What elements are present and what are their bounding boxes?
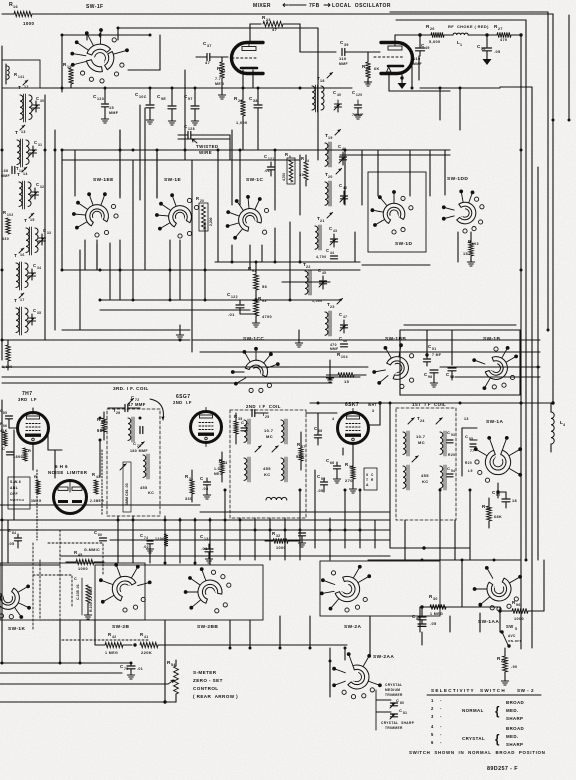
- svg-text:5,600: 5,600: [429, 40, 441, 44]
- svg-text:-90: -90: [511, 665, 517, 669]
- svg-text:SW-1D: SW-1D: [395, 241, 412, 247]
- wire row2 buses: [62, 28, 450, 330]
- svg-text:SW-1K: SW-1K: [8, 626, 25, 632]
- resistor R103: [463, 235, 479, 266]
- svg-text:53: 53: [451, 433, 455, 437]
- rotary switch SW-1EE: [93, 177, 114, 183]
- svg-text:6K: 6K: [374, 67, 380, 71]
- rotary switch SW-1C: [246, 177, 263, 183]
- wire SW-1B box: [400, 325, 520, 395]
- wire right-edge verticals: [252, 12, 569, 649]
- svg-text:SELECTIVITY SWITCH: SELECTIVITY SWITCH: [431, 688, 506, 693]
- svg-text:C: C: [447, 430, 450, 435]
- wire twisted pair second: [178, 135, 230, 160]
- svg-text:C: C: [399, 708, 402, 713]
- svg-text:110: 110: [413, 56, 421, 61]
- svg-text:SW-2BB: SW-2BB: [197, 624, 218, 630]
- wire osc pins: [389, 33, 450, 91]
- svg-text:4700: 4700: [262, 315, 272, 319]
- wire top bus: [2, 4, 252, 14]
- capacitor C128: [178, 124, 202, 139]
- capacitor C135 R101: [74, 577, 93, 619]
- svg-text:24: 24: [420, 419, 425, 423]
- resistor R31: [185, 470, 194, 502]
- svg-text:32: 32: [276, 534, 281, 538]
- svg-text:R: R: [196, 196, 199, 201]
- svg-text:R: R: [14, 72, 17, 77]
- resistor R34: [214, 452, 228, 482]
- svg-text:3RD I.F: 3RD I.F: [18, 397, 37, 402]
- svg-text:SW-1EE: SW-1EE: [93, 177, 114, 183]
- capacitor C57: [492, 483, 517, 508]
- svg-text:27: 27: [498, 27, 503, 31]
- svg-text:SW-1AA: SW-1AA: [478, 619, 499, 625]
- capacitor C74 R-1200: [140, 533, 168, 553]
- svg-text:31: 31: [38, 143, 42, 147]
- svg-text:4: 4: [563, 423, 565, 427]
- svg-text:C: C: [8, 528, 11, 533]
- svg-text:141: 141: [18, 75, 25, 79]
- svg-text:43: 43: [333, 229, 337, 233]
- svg-text:80: 80: [400, 701, 404, 705]
- svg-text:AVC: AVC: [508, 634, 516, 638]
- resistor R54 pot: [167, 660, 178, 702]
- resistor R19: [63, 62, 74, 88]
- svg-text:C: C: [329, 226, 332, 231]
- wire mesh row2-to-IF: [62, 108, 471, 340]
- svg-text:C: C: [264, 154, 267, 159]
- capacitor C75: [120, 663, 143, 679]
- transformer T18: [312, 72, 333, 112]
- svg-text:C: C: [352, 90, 355, 95]
- svg-text:C: C: [326, 248, 329, 253]
- capacitor T26 cap: [108, 398, 140, 415]
- resistor R24: [299, 155, 309, 186]
- label MIXER: [253, 3, 306, 9]
- resistor R26: [420, 24, 444, 44]
- svg-text:MED.: MED.: [506, 708, 519, 713]
- svg-text:R20: R20: [448, 453, 455, 457]
- transformer T: [14, 248, 36, 290]
- switch SW5: [500, 624, 522, 648]
- svg-text:39: 39: [344, 43, 349, 47]
- svg-text:2: 2: [431, 706, 434, 711]
- svg-text:C: C: [396, 698, 399, 703]
- svg-text:330: 330: [185, 497, 193, 501]
- svg-text:SW-2AA: SW-2AA: [373, 654, 394, 660]
- svg-text:43: 43: [96, 475, 100, 479]
- svg-text:C: C: [133, 441, 136, 446]
- wire bottom row verticals: [60, 607, 480, 697]
- svg-text:23: 23: [330, 305, 335, 309]
- rotary switch SW-2A: [344, 624, 361, 630]
- svg-text:WHT: WHT: [368, 403, 377, 407]
- svg-text:7FB: 7FB: [309, 3, 320, 9]
- svg-text:133: 133: [204, 537, 211, 541]
- svg-text:20: 20: [328, 175, 333, 179]
- svg-text:35: 35: [37, 311, 41, 315]
- resistor R43: [90, 472, 104, 503]
- svg-text:47: 47: [272, 27, 278, 32]
- svg-text:.02: .02: [143, 545, 149, 549]
- svg-text:MMF: MMF: [109, 111, 119, 115]
- capacitor 130MMF: [1, 166, 23, 178]
- svg-text:2ND I F COIL: 2ND I F COIL: [246, 404, 281, 409]
- label 7FB LOCAL OSCILLATOR: [309, 3, 391, 9]
- svg-text:180 MMF: 180 MMF: [130, 449, 148, 453]
- svg-text:1,500: 1,500: [312, 299, 323, 303]
- svg-text:52: 52: [321, 477, 326, 481]
- capacitor C66: [326, 458, 341, 483]
- svg-text:45: 45: [78, 553, 83, 557]
- svg-text:6 H 6: 6 H 6: [55, 464, 68, 469]
- capacitor C50: [477, 33, 500, 65]
- capacitor C9E: [157, 88, 176, 125]
- resistor R9 boxed: [282, 152, 295, 184]
- capacitor C43: [316, 226, 338, 259]
- svg-text:3RD. I F. COIL: 3RD. I F. COIL: [113, 386, 149, 391]
- transformer T21: [315, 212, 333, 250]
- svg-text:CRYSTAL SHARP: CRYSTAL SHARP: [381, 721, 415, 725]
- svg-text:C-135 .01: C-135 .01: [76, 584, 80, 600]
- capacitor C36mid: [314, 413, 323, 445]
- svg-text:6SK7: 6SK7: [345, 402, 359, 408]
- svg-text:49: 49: [425, 46, 430, 50]
- table selectivity switch: [409, 688, 545, 755]
- svg-text:85: 85: [3, 411, 7, 415]
- svg-text:96: 96: [3, 424, 7, 428]
- svg-text:C: C: [465, 434, 468, 439]
- svg-text:16: 16: [20, 253, 25, 257]
- svg-text:.05: .05: [317, 489, 323, 493]
- svg-text:104: 104: [341, 355, 348, 359]
- capacitor C47b: [241, 420, 249, 431]
- resistor R29: [497, 648, 517, 685]
- wire 6SK7 pins: [306, 401, 382, 460]
- dotted shield 3rd IF: [37, 450, 102, 540]
- capacitor C10C: [135, 88, 154, 124]
- svg-text:33: 33: [47, 231, 51, 235]
- svg-text:455: 455: [140, 486, 148, 490]
- rotary switch SW-1BB: [385, 336, 406, 342]
- svg-text:455: 455: [263, 466, 271, 471]
- svg-text:15: 15: [344, 379, 350, 384]
- svg-text:SW: SW: [506, 624, 514, 629]
- capacitor C59: [412, 605, 436, 626]
- resistor R23: [262, 15, 336, 52]
- wire mixer plate: [250, 24, 261, 42]
- svg-text:SW-2A: SW-2A: [344, 624, 361, 630]
- capacitor C76: [298, 533, 305, 547]
- coils 2nd IF: [244, 410, 287, 501]
- svg-text:30: 30: [433, 597, 438, 601]
- svg-text:1000: 1000: [78, 567, 88, 571]
- svg-text:ON-OFF: ON-OFF: [508, 639, 522, 643]
- svg-text:16: 16: [13, 5, 18, 9]
- svg-text:7 MF: 7 MF: [432, 353, 441, 357]
- svg-text:WIRE: WIRE: [199, 150, 212, 155]
- svg-text:14: 14: [23, 172, 28, 176]
- svg-text:R20: R20: [465, 461, 472, 465]
- svg-text:44: 44: [330, 251, 334, 255]
- svg-text:220K: 220K: [141, 650, 152, 655]
- svg-text:5: 5: [515, 627, 517, 631]
- resistor R16: [9, 2, 35, 26]
- tube V osc 7F8b: [374, 43, 412, 74]
- resistor R104: [326, 352, 366, 384]
- transformer T: [24, 213, 46, 255]
- svg-text:4,700: 4,700: [316, 255, 327, 259]
- svg-text:.01: .01: [264, 169, 270, 173]
- resistor R-left-bottom: [2, 340, 13, 370]
- svg-text:5: 5: [431, 732, 434, 737]
- svg-text:1: 1: [431, 698, 434, 703]
- svg-text:CRYSTAL: CRYSTAL: [385, 683, 403, 687]
- rotary switch SW-2B: [112, 624, 129, 630]
- svg-text:R: R: [3, 210, 6, 215]
- svg-text:T: T: [24, 218, 27, 224]
- svg-text:L9: L9: [468, 469, 473, 473]
- svg-text:96: 96: [516, 603, 521, 607]
- wire SW-1A conns: [462, 417, 477, 476]
- svg-text:37: 37: [207, 44, 212, 48]
- crystal box: [364, 468, 377, 490]
- resistor R99: [97, 412, 106, 440]
- svg-text:KC: KC: [148, 491, 154, 495]
- svg-text:SW-1F: SW-1F: [86, 4, 103, 10]
- svg-text:.05: .05: [494, 50, 500, 54]
- svg-text:34: 34: [37, 266, 41, 270]
- svg-text:68K: 68K: [494, 515, 502, 519]
- capacitor C97: [184, 88, 199, 125]
- svg-text:20: 20: [200, 199, 204, 203]
- rotary switch SW-2AA: [373, 654, 394, 660]
- svg-text:C: C: [34, 140, 37, 145]
- svg-text:38: 38: [253, 99, 258, 103]
- resistor R45: [66, 550, 104, 571]
- inductor L1 RF choke: [444, 24, 497, 47]
- svg-text:1,000: 1,000: [236, 121, 248, 125]
- rotary switch SW-1D: [368, 172, 426, 252]
- svg-text:41: 41: [144, 635, 149, 639]
- svg-text:1MM C81 .03: 1MM C81 .03: [125, 483, 129, 505]
- svg-text:12: 12: [24, 85, 29, 89]
- svg-text:MED.: MED.: [506, 734, 519, 739]
- svg-text:C: C: [241, 420, 244, 425]
- capacitor C84: [8, 528, 22, 548]
- svg-text:18: 18: [512, 499, 517, 503]
- resistor R32: [265, 531, 300, 550]
- transformer T20: [325, 168, 342, 206]
- capacitor C133: [200, 534, 213, 563]
- resistor R20 boxed: [196, 196, 213, 231]
- svg-text:C: C: [371, 473, 374, 477]
- wire mid-bottom mesh: [0, 403, 470, 565]
- capacitor C123: [93, 88, 119, 123]
- svg-text:MEG: MEG: [215, 82, 224, 86]
- svg-text:MC: MC: [418, 440, 425, 445]
- svg-text:SHARP: SHARP: [506, 742, 523, 747]
- capacitor C120: [352, 90, 364, 119]
- svg-text:-: -: [440, 706, 442, 711]
- svg-text:C: C: [339, 183, 342, 188]
- transformer T: [14, 293, 36, 335]
- svg-text:SW-1C: SW-1C: [246, 177, 263, 183]
- svg-text:89D257 - F: 89D257 - F: [487, 766, 518, 772]
- svg-text:66: 66: [330, 461, 335, 465]
- svg-text:T: T: [14, 298, 17, 304]
- switch SW6 ANL box: [8, 477, 30, 509]
- svg-text:{: {: [495, 734, 500, 746]
- wire row2 horizontals: [62, 155, 540, 352]
- svg-text:-: -: [440, 698, 442, 703]
- svg-text:47 MMF: 47 MMF: [128, 402, 146, 407]
- capacitor C122: [227, 292, 258, 317]
- resistor R27: [494, 24, 523, 42]
- svg-text:3: 3: [431, 714, 434, 719]
- svg-text:SW-1B: SW-1B: [483, 336, 500, 342]
- transformer T23: [312, 298, 348, 351]
- resistor R25: [362, 52, 380, 86]
- svg-text:C: C: [338, 144, 341, 149]
- svg-text:T: T: [15, 130, 18, 136]
- svg-text:2,200: 2,200: [209, 217, 213, 226]
- resistor R-3MEG: [31, 474, 42, 503]
- svg-text:9E: 9E: [161, 97, 166, 101]
- svg-text:ZERO - SET: ZERO - SET: [193, 678, 223, 683]
- wire row3 buses: [192, 262, 360, 379]
- rotary switch SW-2BB: [197, 624, 218, 630]
- rotary switch SW-1CC: [243, 336, 264, 342]
- svg-text:{: {: [495, 706, 500, 718]
- rotary switch SW-1B: [483, 336, 500, 342]
- svg-text:R: R: [92, 472, 95, 477]
- wire left edge verticals: [2, 400, 14, 663]
- svg-text:15: 15: [463, 252, 468, 256]
- svg-text:S.W.6: S.W.6: [10, 480, 21, 484]
- wire left verticals: [2, 95, 55, 360]
- svg-text:C: C: [333, 90, 336, 95]
- svg-text:96: 96: [428, 375, 433, 379]
- svg-text:1000: 1000: [276, 546, 286, 550]
- svg-text:1000: 1000: [514, 617, 524, 621]
- svg-text:1.0: 1.0: [214, 467, 220, 471]
- svg-text:22: 22: [306, 265, 311, 269]
- svg-text:123: 123: [97, 97, 104, 101]
- svg-text:13: 13: [21, 130, 26, 134]
- capacitor C80g: [84, 530, 107, 552]
- svg-text:1 MEG: 1 MEG: [105, 651, 118, 655]
- svg-text:455: 455: [421, 473, 429, 478]
- svg-text:56K: 56K: [296, 454, 305, 459]
- svg-text:47: 47: [245, 423, 249, 427]
- svg-text:MMF: MMF: [330, 347, 338, 351]
- resistor R35: [234, 413, 243, 444]
- svg-text:15: 15: [109, 106, 114, 110]
- svg-text:SWITCH SHOWN IN NORMAL BRO: SWITCH SHOWN IN NORMAL BROAD POSITION: [409, 750, 545, 755]
- svg-text:MEG: MEG: [214, 472, 223, 476]
- svg-text:47: 47: [205, 60, 211, 65]
- svg-text:-: -: [440, 724, 442, 729]
- resistor R22: [234, 88, 248, 150]
- svg-text:26: 26: [116, 411, 121, 415]
- svg-text:SW-1E: SW-1E: [164, 177, 181, 183]
- svg-text:SHARP: SHARP: [506, 716, 523, 721]
- svg-text:SW-2B: SW-2B: [112, 624, 129, 630]
- svg-text:MMF: MMF: [413, 62, 422, 66]
- svg-text:1000: 1000: [23, 21, 35, 26]
- capacitor C49: [413, 33, 430, 66]
- tube V4 6SG7: [191, 408, 222, 447]
- svg-text:25: 25: [265, 415, 270, 419]
- tube V5 6SK7: [338, 409, 369, 448]
- svg-text:81: 81: [403, 711, 407, 715]
- label twisted wire: [192, 139, 219, 155]
- svg-text:C: C: [36, 96, 39, 101]
- svg-text:ANL: ANL: [10, 486, 18, 490]
- svg-text:MC: MC: [266, 434, 273, 439]
- svg-text:54: 54: [451, 469, 455, 473]
- tube V mixer 7F8a: [232, 43, 263, 74]
- svg-text:C: C: [36, 182, 39, 187]
- wire bottom-left buses: [0, 645, 176, 704]
- IF transformer 3rd dashed box: [107, 409, 160, 516]
- svg-text:C: C: [447, 466, 450, 471]
- inductor L4: [551, 403, 565, 452]
- svg-text:KC: KC: [264, 472, 271, 477]
- rotated label 3rd IF: [123, 462, 131, 512]
- svg-text:4: 4: [431, 724, 434, 729]
- capacitor C121: [264, 154, 275, 176]
- svg-text:BROAD: BROAD: [506, 726, 524, 731]
- svg-text:C: C: [94, 530, 97, 535]
- svg-text:SW-1A: SW-1A: [486, 419, 503, 425]
- svg-text:2.2MEG: 2.2MEG: [90, 499, 104, 503]
- capacitor C42: [339, 183, 348, 204]
- capacitor C98: [446, 368, 456, 380]
- arrow C72: [150, 399, 165, 420]
- wire SW-1F area: [62, 28, 318, 90]
- resistor R42: [95, 632, 132, 655]
- svg-text:MMF: MMF: [339, 62, 348, 66]
- svg-text:.05: .05: [202, 487, 208, 491]
- svg-text:10C: 10C: [139, 95, 147, 99]
- svg-text:TRIMMER: TRIMMER: [385, 693, 403, 697]
- capacitor C37: [196, 41, 228, 65]
- svg-text:3: 3: [372, 409, 374, 413]
- rotary switch SW-1DD: [447, 176, 468, 182]
- capacitor C96: [424, 370, 438, 387]
- svg-text:1 MEG: 1 MEG: [430, 612, 443, 616]
- svg-text:C: C: [33, 308, 36, 313]
- svg-text:X: X: [366, 473, 369, 477]
- svg-text:1: 1: [460, 43, 462, 47]
- svg-text:4: 4: [332, 417, 334, 421]
- svg-text:30: 30: [40, 99, 44, 103]
- svg-text:R: R: [34, 474, 37, 479]
- label 3RD IF COIL: [18, 386, 192, 407]
- svg-text:C: C: [2, 446, 5, 451]
- svg-text:-: -: [440, 732, 442, 737]
- svg-text:RF CHOKE ( RED): RF CHOKE ( RED): [448, 24, 489, 29]
- svg-text:32: 32: [40, 185, 44, 189]
- svg-text:SWITCH: SWITCH: [10, 498, 24, 502]
- resistor R36b: [345, 460, 357, 493]
- rotary switch SW-1E: [164, 177, 181, 183]
- svg-text:7.7: 7.7: [215, 77, 221, 81]
- svg-text:.01: .01: [228, 312, 235, 317]
- svg-text:T: T: [18, 85, 21, 91]
